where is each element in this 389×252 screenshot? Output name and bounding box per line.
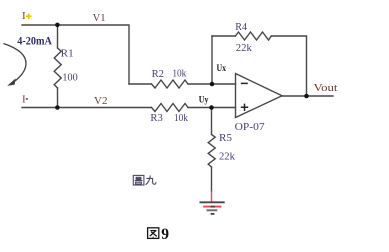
svg-text:22k: 22k [219, 150, 235, 162]
svg-text:R4: R4 [235, 21, 247, 33]
svg-text:I: I [22, 10, 26, 22]
svg-text:I: I [22, 94, 26, 106]
svg-text:OP-07: OP-07 [235, 121, 266, 133]
svg-text:100: 100 [62, 71, 78, 83]
svg-text:22k: 22k [236, 42, 252, 54]
svg-text:V2: V2 [94, 95, 108, 107]
svg-text:R5: R5 [219, 132, 232, 144]
svg-text:R1: R1 [61, 48, 74, 60]
svg-text:Uy: Uy [199, 95, 209, 105]
svg-text:Ux: Ux [217, 63, 227, 73]
svg-text:10k: 10k [172, 68, 186, 80]
svg-text:V1: V1 [93, 12, 106, 24]
svg-text:10k: 10k [174, 112, 188, 124]
svg-text:R3: R3 [150, 112, 163, 124]
svg-text:R2: R2 [152, 68, 164, 80]
svg-text:Vout: Vout [314, 82, 338, 94]
svg-text:4-20mA: 4-20mA [17, 36, 52, 48]
svg-text:9: 9 [161, 226, 169, 243]
